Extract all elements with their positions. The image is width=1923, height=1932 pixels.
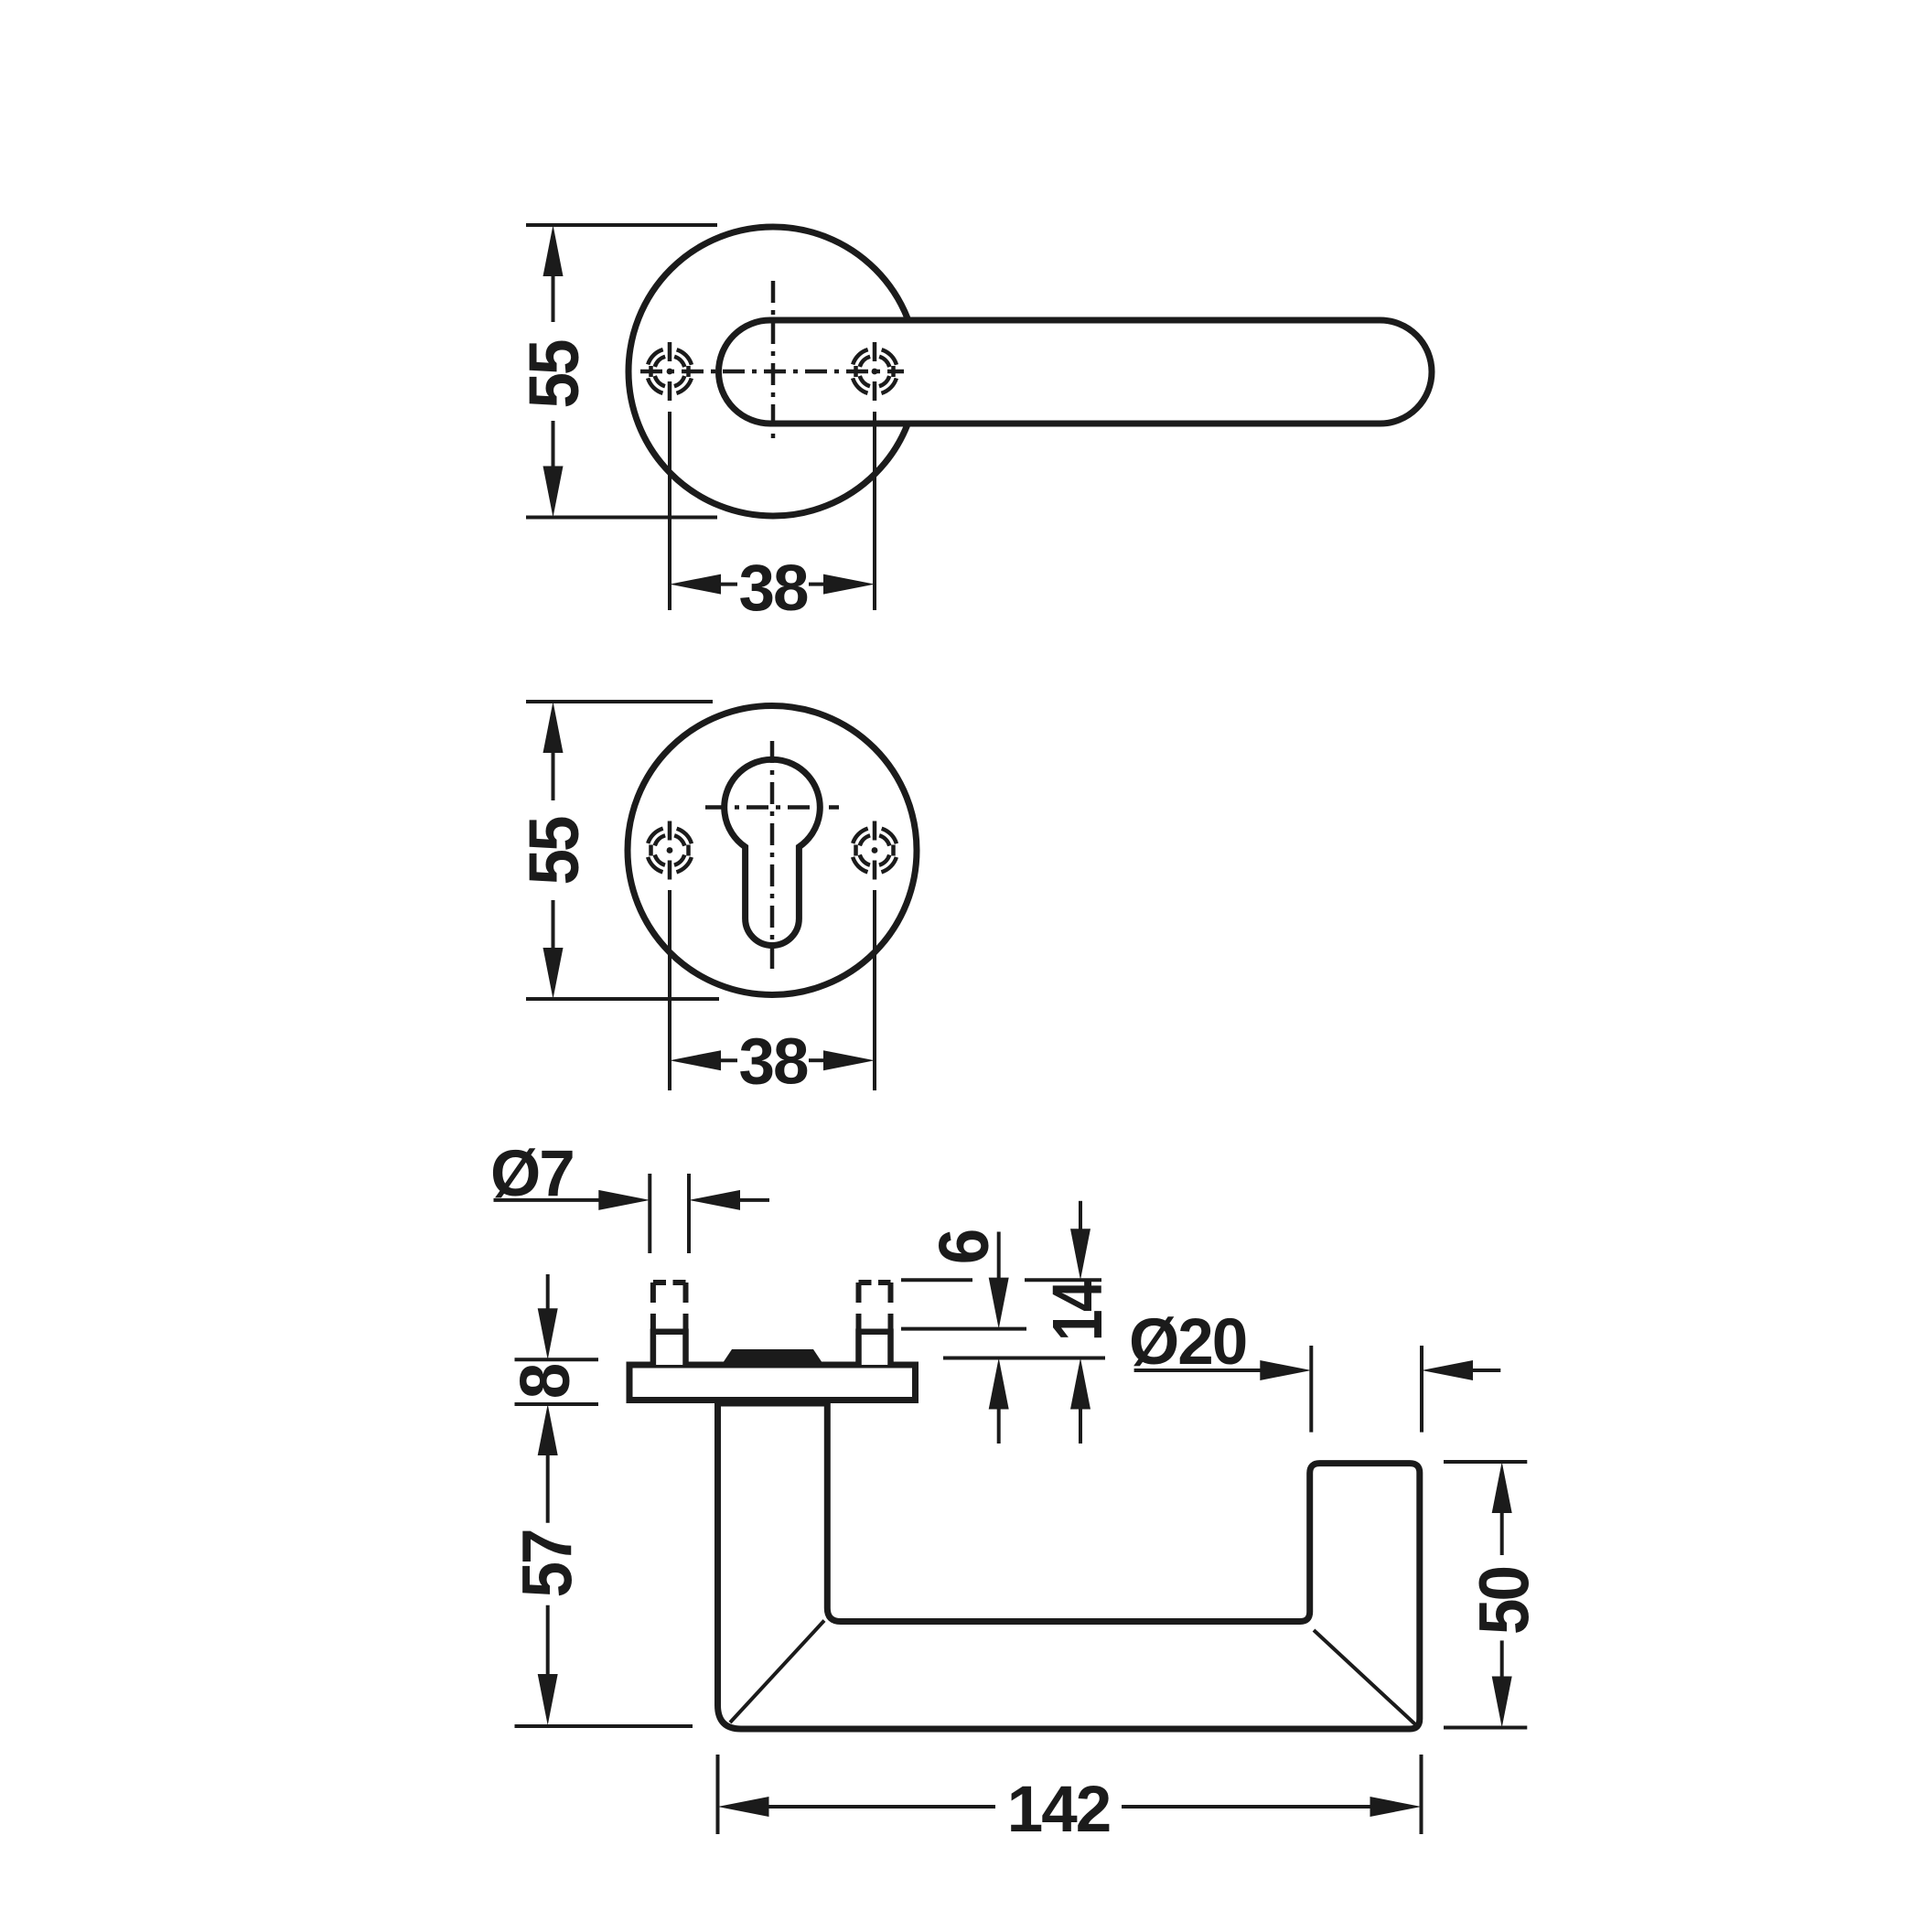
svg-text:8: 8 [505,1365,584,1399]
dim 55 middle: extension lines [526,700,713,703]
extension line below left screw [668,890,671,1090]
svg-text:55: 55 [514,817,593,885]
lever horizontal centerline [640,370,904,374]
dim 6: upper arrow [997,1232,1001,1280]
dim 14: lower arrow [1070,1358,1090,1410]
dim Ø20 extension lines [1309,1346,1313,1433]
screw hole left [647,342,693,401]
dim 8: extension lines [515,1358,599,1361]
screw hole left [647,821,693,880]
dim 38 middle: dimension line with arrows [670,1050,721,1070]
svg-text:6: 6 [924,1230,1003,1264]
left bevel edge [730,1621,824,1723]
dim 55 middle: dimension line with arrows [543,702,564,753]
svg-text:38: 38 [739,1026,808,1099]
right screw stud solid [859,1332,891,1365]
dim 8: upper arrow [546,1274,550,1310]
ext line C (plate top level) [943,1357,1105,1360]
ext line A (stud hidden top level) [901,1278,972,1282]
dim 50: extension lines [1444,1460,1527,1464]
handle body outline [718,1403,1420,1729]
dim 14: upper arrow [1079,1201,1082,1230]
dim 57 bottom extension line [515,1724,693,1728]
left screw stud solid [653,1332,686,1365]
rosette plate side view [629,1365,916,1401]
svg-text:50: 50 [1465,1567,1543,1635]
profile cylinder hole [725,759,821,945]
cylinder vertical centerline [770,741,775,974]
dim 38 top: dimension line with arrows [670,574,721,595]
svg-text:38: 38 [739,553,808,625]
dim 142: line and arrows [718,1797,769,1817]
svg-text:55: 55 [514,340,593,409]
right bevel edge [1314,1630,1415,1724]
ext line B (stud solid top level) [901,1327,1026,1331]
extension line below left screw [668,412,671,610]
right screw stud hidden part [859,1283,891,1329]
screw hole right [852,821,897,880]
dim 55 top: extension lines [526,223,717,227]
extension line below right screw [873,890,876,1090]
dim Ø7 line and arrows [494,1198,601,1202]
dim 57: lower arrow [546,1605,550,1676]
left screw stud hidden part [653,1283,686,1329]
dim 6: lower arrow [989,1358,1009,1410]
extension line below right screw [873,412,876,610]
dim 142: extension lines [716,1755,720,1834]
svg-text:Ø20: Ø20 [1129,1306,1246,1379]
dim Ø20 line and arrows [1134,1368,1262,1372]
lever silhouette (stadium) [719,320,1433,424]
dim Ø7 extension lines [648,1174,651,1253]
spindle bump on plate [723,1349,822,1363]
dim 57: shared upper arrow [538,1404,558,1455]
svg-text:57: 57 [508,1530,586,1597]
escutcheon circle [628,706,917,995]
svg-text:14: 14 [1038,1280,1117,1341]
cylinder horizontal centerline [705,805,839,810]
rosette circle [628,227,918,516]
svg-text:142: 142 [1007,1774,1110,1846]
rosette vertical centerline [771,281,776,445]
dim 50: arrows [1492,1462,1512,1513]
screw hole right [852,342,897,401]
dim 55 top: dimension line with arrows [543,225,564,276]
